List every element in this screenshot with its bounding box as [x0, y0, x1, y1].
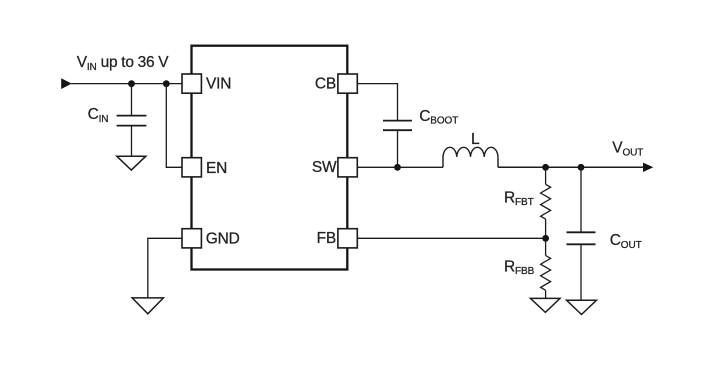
node VOUT arrow	[643, 163, 653, 172]
svg-text:VIN: VIN	[206, 76, 231, 93]
svg-text:VOUT: VOUT	[612, 140, 643, 159]
pin GND	[182, 229, 201, 248]
wire GND to ground	[148, 238, 182, 298]
IC U1 body	[192, 46, 348, 270]
ground COUT	[567, 300, 597, 314]
svg-text:FB: FB	[317, 230, 336, 247]
resistor RFBT	[541, 184, 551, 219]
wire RFBB bottom lead	[545, 290, 547, 298]
pin CB	[338, 74, 357, 93]
wire CB to CBOOT	[357, 84, 397, 121]
wire COUT top lead	[580, 167, 582, 232]
junction CIN tap	[128, 80, 135, 87]
junction FB node	[542, 235, 549, 242]
wire CBOOT to SW node	[397, 130, 399, 167]
wire RFBT top lead	[545, 167, 547, 184]
capacitor COUT	[567, 232, 596, 244]
svg-text:L: L	[471, 131, 480, 148]
svg-text:SW: SW	[312, 159, 337, 176]
svg-text:CBOOT: CBOOT	[419, 108, 458, 127]
wire FB	[357, 237, 545, 239]
inductor L	[443, 147, 498, 167]
junction COUT node	[578, 164, 585, 171]
ground RFBB	[530, 298, 560, 312]
wire COUT bottom lead	[580, 244, 582, 300]
svg-text:CIN: CIN	[88, 106, 109, 125]
wire input VIN	[71, 83, 182, 85]
wire CIN bottom lead	[131, 126, 133, 157]
node VIN input arrow	[61, 78, 71, 89]
pin EN	[182, 158, 201, 177]
wire RFBT bottom lead	[545, 219, 547, 238]
svg-text:COUT: COUT	[610, 232, 642, 251]
svg-text:RFBB: RFBB	[504, 258, 535, 277]
capacitor CIN	[117, 116, 147, 126]
resistor RFBB	[541, 256, 551, 291]
svg-text:VIN up to 36 V: VIN up to 36 V	[77, 54, 169, 73]
pin SW	[338, 158, 357, 177]
svg-text:GND: GND	[206, 231, 240, 248]
pin VIN	[182, 74, 201, 93]
junction EN tap	[163, 80, 170, 87]
ground GND	[132, 298, 163, 314]
junction RFBT node	[542, 164, 549, 171]
ground CIN	[117, 156, 146, 170]
svg-text:RFBT: RFBT	[504, 189, 534, 208]
wire EN tap vertical	[166, 84, 181, 168]
pin FB	[338, 229, 357, 248]
capacitor CBOOT	[383, 121, 412, 131]
wire inductor to VOUT	[498, 166, 644, 168]
svg-text:EN: EN	[206, 160, 227, 177]
wire SW to inductor	[357, 166, 443, 168]
wire RFBB top lead	[545, 238, 547, 255]
junction CBOOT-SW	[394, 164, 401, 171]
svg-text:CB: CB	[315, 75, 336, 92]
wire CIN top lead	[131, 84, 133, 116]
